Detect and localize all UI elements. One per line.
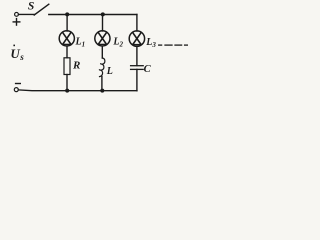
wire branch3 corner + top lead <box>136 15 138 32</box>
dashed continuation line <box>159 44 188 46</box>
inductor L coil <box>99 58 105 77</box>
node junction top branch 1 <box>65 12 69 16</box>
svg-text:R: R <box>72 60 80 72</box>
node junction bottom branch 1 <box>65 89 69 93</box>
wire terminal to switch pivot <box>19 13 35 15</box>
wire bottom bus <box>18 89 136 92</box>
lamp L3 <box>129 31 144 46</box>
terminal + (top-left) <box>15 12 19 16</box>
minus sign <box>16 83 21 85</box>
resistor R <box>64 58 70 75</box>
svg-text:L1: L1 <box>75 37 86 49</box>
wire resistor to bottom <box>66 75 68 91</box>
svg-text:L2: L2 <box>112 37 123 49</box>
svg-text:S: S <box>28 1 34 13</box>
node junction top branch 2 <box>101 12 105 16</box>
terminal - (bottom-left) <box>14 88 18 92</box>
wire lamp L1 to resistor <box>66 46 68 58</box>
switch S blade <box>34 4 49 15</box>
svg-text:L3: L3 <box>145 37 156 49</box>
wire inductor to bottom <box>101 77 103 91</box>
lamp L1 <box>59 31 74 46</box>
wire capacitor to bottom <box>136 69 138 90</box>
svg-text:L: L <box>106 66 113 77</box>
wire lamp L2 to inductor <box>101 46 103 58</box>
lamp L2 <box>95 31 110 46</box>
wire lamp L3 to capacitor <box>136 47 138 66</box>
node junction bottom branch 2 <box>100 89 104 93</box>
wire branch2 top lead <box>102 15 104 32</box>
wire top bus <box>49 14 137 16</box>
plus sign <box>13 19 20 26</box>
svg-text:C: C <box>144 64 152 75</box>
svg-text:Us: Us <box>10 46 24 62</box>
label Us phasor dot <box>13 45 15 47</box>
wire branch1 top lead <box>66 15 68 32</box>
capacitor C <box>131 66 144 70</box>
